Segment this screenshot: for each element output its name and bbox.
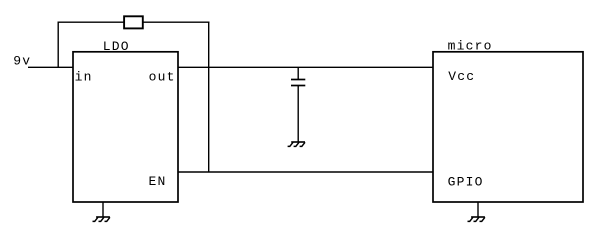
svg-text:LDO: LDO xyxy=(103,39,130,54)
capacitor C1 (decoupling) xyxy=(291,67,305,142)
wire 9V input to LDO in xyxy=(28,66,74,68)
svg-text:in: in xyxy=(75,70,93,85)
svg-text:micro: micro xyxy=(448,39,493,54)
node 9V label xyxy=(13,54,31,69)
ground for capacitor xyxy=(288,142,305,146)
svg-text:EN: EN xyxy=(149,174,167,189)
wire pull-up right vertical down to EN net xyxy=(208,22,210,173)
wire micro ground stub xyxy=(477,202,479,217)
IC U2 microcontroller (pins Vcc, GPIO) xyxy=(433,39,583,203)
wire top right segment from resistor xyxy=(143,21,210,23)
svg-text:GPIO: GPIO xyxy=(448,175,484,190)
wire pull-up left vertical xyxy=(57,22,59,68)
wire LDO out to micro Vcc xyxy=(178,66,433,68)
svg-text:Vcc: Vcc xyxy=(448,69,475,84)
svg-text:9v: 9v xyxy=(13,54,31,69)
svg-text:out: out xyxy=(149,70,176,85)
ground for micro xyxy=(468,217,485,221)
resistor R1 (pull-up, box symbol) xyxy=(124,16,143,28)
wire LDO EN to micro GPIO xyxy=(178,171,433,173)
wire top left segment to resistor xyxy=(58,21,125,23)
IC U1 LDO regulator (pins in, out, EN) xyxy=(73,39,178,202)
ground for LDO xyxy=(93,217,110,221)
wire LDO ground stub xyxy=(102,202,104,217)
